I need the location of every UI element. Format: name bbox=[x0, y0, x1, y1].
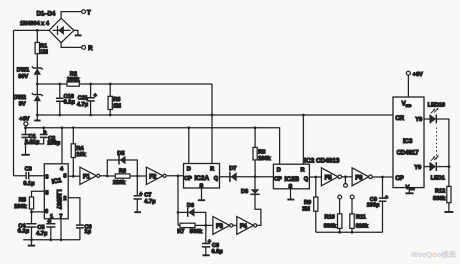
node R11 bottom bbox=[351, 231, 354, 234]
svg-text:2M: 2M bbox=[302, 207, 310, 213]
svg-text:4.7μ: 4.7μ bbox=[36, 231, 48, 237]
resistor R8 100k bbox=[253, 128, 272, 177]
svg-text:4.7μ: 4.7μ bbox=[77, 102, 89, 108]
terminal +6V left bbox=[19, 117, 29, 128]
svg-text:C7: C7 bbox=[144, 193, 151, 199]
wire F6 output to IC3 CP bbox=[372, 176, 393, 178]
resistor R11 910k bbox=[350, 214, 369, 232]
svg-text:IC2B: IC2B bbox=[285, 176, 300, 183]
svg-text:R6: R6 bbox=[119, 169, 126, 175]
svg-text:D5: D5 bbox=[117, 151, 124, 157]
svg-text:R12: R12 bbox=[435, 188, 445, 194]
ground symbol bottom rail bbox=[28, 240, 35, 246]
switch contact R11 bbox=[350, 195, 354, 214]
LED10 bbox=[428, 102, 445, 123]
ground IC2A S pin bbox=[198, 188, 205, 200]
svg-text:200k: 200k bbox=[14, 204, 27, 210]
wire rail to IC1 pin4 bbox=[61, 128, 63, 164]
node line B to R pin bbox=[302, 114, 305, 117]
wire input top horizontal bbox=[14, 29, 50, 31]
node F3 input bbox=[204, 224, 207, 227]
op-amp tone decoder IC1 LM567 bbox=[44, 164, 68, 220]
capacitor C5 4.7u electrolytic on pin1 bbox=[36, 219, 55, 240]
bridge rectifier D1-D4 bbox=[20, 12, 74, 43]
wire R5 bottom to pin6 bbox=[32, 209, 45, 212]
svg-text:DW1: DW1 bbox=[17, 68, 29, 74]
wire IC1 pin2 to C6 bbox=[68, 198, 80, 225]
capacitor C7 4.7u electrolytic bbox=[134, 176, 157, 212]
node LED join R12 bbox=[448, 165, 451, 168]
svg-text:DW2: DW2 bbox=[14, 95, 26, 101]
capacitor C8 6.8u electrolytic bbox=[202, 225, 223, 255]
svg-text:1M: 1M bbox=[113, 103, 121, 109]
node C11 bottom bbox=[89, 114, 92, 117]
resistor R5 200k bbox=[14, 197, 33, 210]
wire IC2A D pin to rail bbox=[188, 128, 190, 164]
svg-text:1μ: 1μ bbox=[85, 229, 92, 235]
svg-text:10k: 10k bbox=[76, 152, 86, 158]
diode D7 bbox=[229, 166, 236, 182]
svg-text:+6V: +6V bbox=[413, 72, 423, 78]
wire IC2A Q to D7 to node bbox=[220, 176, 256, 178]
resistor R3 1M bbox=[108, 84, 121, 115]
node R8 top bbox=[254, 126, 257, 129]
ground earth bar at bridge bbox=[75, 34, 82, 36]
wire bottom ground rail bbox=[23, 239, 80, 241]
node C9 top bbox=[381, 176, 384, 179]
wire IC2B Q to F5 bbox=[309, 176, 321, 178]
node line A/line B crossing junction bbox=[211, 114, 214, 117]
svg-text:IC2 CD4013: IC2 CD4013 bbox=[304, 157, 340, 164]
terminal R bbox=[82, 46, 94, 53]
wire IC1 pin7 to ground rail bbox=[60, 219, 62, 240]
svg-text:WeeQoo维库: WeeQoo维库 bbox=[411, 249, 457, 259]
node R3 bottom bbox=[109, 114, 112, 117]
capacitor C1 0.01u bbox=[21, 128, 39, 155]
svg-text:D7: D7 bbox=[229, 166, 236, 172]
node D6 left bbox=[177, 211, 180, 214]
wire F2 output to IC2A CP bbox=[166, 175, 183, 177]
svg-text:LM567: LM567 bbox=[55, 190, 62, 210]
svg-text:C11: C11 bbox=[78, 96, 88, 102]
resistor R10 300k bbox=[324, 214, 342, 232]
svg-text:R7: R7 bbox=[177, 229, 184, 235]
svg-text:F1: F1 bbox=[83, 174, 91, 180]
wire vertical chain x=37 bbox=[36, 30, 38, 115]
node R5-pin6-C4 bbox=[30, 211, 33, 214]
wire LED10 to right rail down bbox=[436, 119, 449, 167]
svg-text:D8: D8 bbox=[241, 189, 248, 195]
wire R7 lower path bbox=[178, 224, 213, 226]
wire +6V rail y=127.8 bbox=[26, 128, 280, 164]
svg-text:6: 6 bbox=[45, 209, 48, 215]
svg-text:F5: F5 bbox=[325, 176, 333, 182]
inverter F6 bbox=[352, 168, 372, 186]
flip-flop IC2A CD4013 bbox=[184, 164, 220, 190]
resistor R12 330k bbox=[433, 167, 451, 212]
svg-text:CD4017: CD4017 bbox=[397, 150, 420, 156]
wire F3 to F4 bbox=[233, 224, 237, 226]
svg-text:CR: CR bbox=[395, 116, 404, 122]
ground R12 bbox=[444, 211, 453, 213]
resistor R9 2M bbox=[302, 177, 318, 232]
svg-text:3V: 3V bbox=[19, 101, 26, 107]
node C11 top bbox=[89, 83, 92, 86]
svg-text:F4: F4 bbox=[240, 224, 248, 230]
svg-text:R: R bbox=[300, 168, 304, 174]
node IC2A D supply bbox=[187, 126, 190, 129]
resistor R1 1M bbox=[35, 42, 48, 55]
wire line B ring-detect y=115 bbox=[37, 114, 393, 116]
node DW1-DW2 junction bbox=[36, 83, 39, 86]
svg-text:1M: 1M bbox=[40, 50, 48, 56]
svg-text:910k: 910k bbox=[356, 223, 369, 229]
wire Y0 to LED1 bbox=[424, 166, 430, 168]
capacitor C10 0.1u bbox=[56, 84, 75, 115]
capacitor C3 0.1u input coupling bbox=[14, 166, 45, 187]
svg-text:30V: 30V bbox=[18, 74, 28, 80]
resistor R4 10k bbox=[71, 128, 86, 176]
svg-text:IC2A: IC2A bbox=[195, 175, 210, 182]
inverter F2 bbox=[146, 167, 166, 184]
svg-text:0.1μ: 0.1μ bbox=[23, 181, 35, 187]
resistor R6 220k bbox=[113, 169, 130, 187]
svg-text:8: 8 bbox=[63, 174, 66, 180]
wire F4 output jog up to D8 bbox=[255, 194, 261, 225]
svg-text:3: 3 bbox=[45, 175, 48, 181]
svg-text:CP: CP bbox=[184, 176, 192, 182]
svg-text:R5: R5 bbox=[19, 198, 26, 204]
svg-text:IC3: IC3 bbox=[403, 139, 413, 145]
counter IC3 CD4017 bbox=[393, 97, 424, 191]
node IC1 pin4 supply bbox=[61, 126, 64, 129]
ground IC3 Vss bbox=[405, 188, 413, 194]
wire F5 to F6 bbox=[342, 176, 353, 178]
wire D6 upper path bbox=[178, 212, 206, 225]
wire line A corner down to IC2A R pin bbox=[211, 84, 213, 164]
svg-text:0.1μ: 0.1μ bbox=[18, 229, 30, 235]
svg-text:R11: R11 bbox=[356, 214, 366, 220]
wire branch down to D6/R7 bbox=[177, 176, 179, 226]
svg-text:R: R bbox=[88, 46, 93, 52]
node D5/R6 left bbox=[106, 175, 109, 178]
capacitor C2 100u electrolytic bbox=[26, 128, 61, 147]
node C2 top bbox=[42, 126, 45, 129]
svg-text:C3: C3 bbox=[25, 166, 32, 172]
flip-flop IC2B CD4013 bbox=[273, 164, 309, 190]
node selector pole top bbox=[344, 175, 347, 178]
LED1 bbox=[430, 155, 445, 181]
wire bridge right to earth bbox=[74, 30, 78, 34]
svg-text:LED1: LED1 bbox=[431, 176, 445, 182]
switch pole contact bbox=[344, 177, 348, 188]
svg-text:F3: F3 bbox=[216, 224, 224, 230]
svg-text:Q: Q bbox=[304, 177, 309, 183]
svg-text:T: T bbox=[87, 10, 91, 16]
svg-text:2: 2 bbox=[63, 196, 66, 202]
wire bridge to R terminal bbox=[61, 43, 82, 48]
svg-text:+6V: +6V bbox=[19, 117, 29, 123]
svg-text:R4: R4 bbox=[76, 146, 84, 152]
svg-text:560k: 560k bbox=[190, 229, 203, 235]
zener diode DW2 3V bbox=[14, 93, 43, 107]
capacitor C9 100u electrolytic bbox=[367, 177, 389, 232]
svg-text:100k: 100k bbox=[258, 156, 271, 162]
wire line A y=84 to IC2A reset drop bbox=[37, 83, 212, 85]
svg-text:CP: CP bbox=[274, 177, 282, 183]
node C1-C2 join bbox=[24, 143, 27, 146]
svg-text:5: 5 bbox=[45, 190, 48, 196]
switch contact R10 bbox=[338, 195, 342, 214]
wire F1 output to node bbox=[100, 175, 108, 177]
svg-text:D: D bbox=[187, 167, 191, 173]
capacitor C6 1u bbox=[76, 224, 92, 239]
diode D6 bbox=[187, 203, 195, 217]
svg-text:CP: CP bbox=[395, 176, 403, 182]
svg-text:100μ: 100μ bbox=[367, 203, 380, 209]
ground IC2B S pin bbox=[287, 189, 294, 200]
wire LED1 to junction bbox=[436, 166, 449, 168]
node C1 top bbox=[24, 126, 27, 129]
node F2 out / D6 branch bbox=[177, 175, 180, 178]
inverter F5 bbox=[321, 168, 341, 186]
svg-text:300k: 300k bbox=[324, 223, 337, 229]
wire left rail vertical bbox=[13, 30, 15, 175]
svg-text:VDD: VDD bbox=[402, 102, 412, 108]
resistor R2 200k bbox=[67, 71, 80, 86]
ground under DW2 junction bbox=[34, 115, 40, 121]
diode D8 bbox=[241, 177, 260, 195]
wire IC1 pin5 to R5 bbox=[32, 191, 45, 197]
node R3 top bbox=[109, 83, 112, 86]
diode D5 bbox=[117, 151, 125, 164]
svg-text:R1: R1 bbox=[40, 44, 47, 50]
svg-text:R10: R10 bbox=[325, 214, 335, 220]
svg-text:D6: D6 bbox=[187, 203, 194, 209]
svg-text:200k: 200k bbox=[67, 77, 80, 83]
svg-text:R3: R3 bbox=[113, 97, 120, 103]
node C4 ground bbox=[30, 238, 33, 241]
wire R6 main path bbox=[107, 175, 146, 177]
svg-text:LED10: LED10 bbox=[428, 102, 445, 108]
svg-text:F6: F6 bbox=[355, 176, 363, 182]
svg-text:220k: 220k bbox=[113, 180, 126, 186]
svg-text:Y0: Y0 bbox=[414, 165, 421, 171]
inverter F3 bbox=[213, 217, 233, 235]
watermark WeeQoo bbox=[411, 249, 457, 259]
node R9 top bbox=[314, 176, 317, 179]
wire IC1 pin8 to F1 bbox=[68, 175, 80, 177]
svg-text:D: D bbox=[277, 168, 281, 174]
svg-text:D1–D4: D1–D4 bbox=[37, 12, 56, 18]
wire D5 bypass loop bbox=[107, 160, 137, 176]
wire bridge to T terminal bbox=[61, 12, 82, 19]
inverter F1 bbox=[80, 167, 100, 184]
node C7 top bbox=[136, 175, 139, 178]
node pin7 ground bbox=[60, 238, 63, 241]
wire Y9 to LED10 bbox=[424, 118, 430, 120]
node R10 bottom bbox=[338, 231, 341, 234]
resistor R7 560k bbox=[177, 223, 203, 235]
terminal T bbox=[82, 10, 91, 17]
svg-text:330k: 330k bbox=[433, 196, 446, 202]
svg-text:VSS: VSS bbox=[406, 185, 415, 191]
svg-text:Q: Q bbox=[214, 176, 219, 182]
node DW2 bottom bbox=[36, 114, 39, 117]
capacitor C4 0.1u bbox=[18, 212, 37, 240]
node D7-R8-D8-CP junction bbox=[254, 175, 257, 178]
node R4 top bbox=[72, 126, 75, 129]
inverter F4 bbox=[237, 217, 257, 235]
svg-text:R: R bbox=[210, 167, 214, 173]
node C10 top bbox=[58, 83, 61, 86]
wire node to IC2B CP bbox=[255, 176, 273, 178]
svg-text:6.8μ: 6.8μ bbox=[212, 249, 224, 255]
zener diode DW1 30V bbox=[17, 66, 43, 80]
svg-text:R9: R9 bbox=[304, 200, 311, 206]
capacitor C11 4.7u electrolytic bbox=[77, 84, 98, 115]
node C5 ground bbox=[49, 238, 52, 241]
node junction R1 top bbox=[36, 29, 39, 32]
node R4 bottom pin8 bbox=[72, 175, 75, 178]
svg-text:F2: F2 bbox=[149, 174, 157, 180]
wire timing bottom R9 to C9 bbox=[316, 231, 383, 233]
wire IC2B R pin to line B bbox=[302, 115, 304, 164]
svg-text:4.7μ: 4.7μ bbox=[144, 199, 156, 205]
svg-text:R8: R8 bbox=[258, 149, 265, 155]
wire dashed LED2-LED9 omitted bbox=[436, 128, 438, 161]
terminal +6V right bbox=[406, 71, 423, 78]
svg-text:0.1μ: 0.1μ bbox=[64, 99, 76, 105]
node C10 bottom bbox=[58, 114, 61, 117]
svg-text:1N4004 x 4: 1N4004 x 4 bbox=[20, 21, 50, 27]
svg-text:100μ: 100μ bbox=[47, 141, 60, 147]
svg-text:Y9: Y9 bbox=[415, 117, 422, 123]
wire +6V to IC3 Vdd bbox=[407, 75, 409, 97]
